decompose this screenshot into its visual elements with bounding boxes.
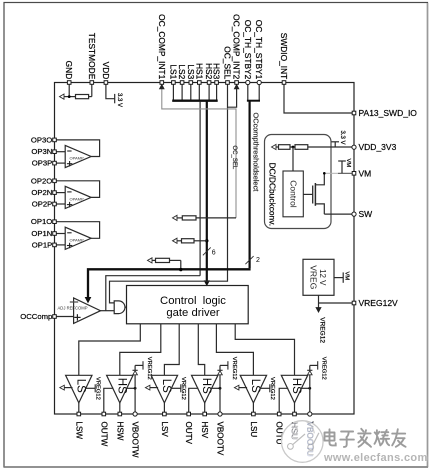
svg-text:LS: LS xyxy=(160,379,172,393)
svg-text:OC_SEL: OC_SEL xyxy=(231,146,237,170)
svg-text:LS1: LS1 xyxy=(168,64,178,79)
svg-text:VDD: VDD xyxy=(101,62,111,80)
svg-text:OPAMP: OPAMP xyxy=(70,197,84,202)
svg-text:OP2P: OP2P xyxy=(32,200,53,209)
svg-text:HSV: HSV xyxy=(200,422,209,439)
svg-text:HS: HS xyxy=(115,378,127,394)
svg-text:Control logic: Control logic xyxy=(160,295,226,307)
svg-text:GND: GND xyxy=(64,61,74,80)
svg-text:VREG12: VREG12 xyxy=(180,377,186,400)
svg-text:6: 6 xyxy=(212,250,216,257)
svg-text:OC_TH_STBY1: OC_TH_STBY1 xyxy=(254,20,264,80)
svg-text:LSV: LSV xyxy=(160,422,169,438)
svg-text:OUTV: OUTV xyxy=(184,422,193,445)
svg-text:OP2O: OP2O xyxy=(31,176,52,185)
svg-text:HSU: HSU xyxy=(290,422,300,440)
svg-text:OUTW: OUTW xyxy=(99,422,108,447)
svg-text:OCcompthresholdselect: OCcompthresholdselect xyxy=(251,113,260,192)
svg-text:HS3: HS3 xyxy=(212,63,222,80)
svg-text:VBOOTV: VBOOTV xyxy=(216,422,225,456)
svg-text:VREG12: VREG12 xyxy=(269,377,275,400)
svg-text:PA13_SWD_IO: PA13_SWD_IO xyxy=(359,108,418,118)
svg-text:TESTMODE: TESTMODE xyxy=(87,33,97,80)
svg-text:LS: LS xyxy=(74,379,86,393)
svg-text:LSW: LSW xyxy=(74,422,83,440)
svg-text:OP3O: OP3O xyxy=(31,135,52,144)
svg-text:VREG12: VREG12 xyxy=(231,357,237,380)
svg-text:VREG12: VREG12 xyxy=(318,317,325,343)
svg-text:OC_COMP_INT2: OC_COMP_INT2 xyxy=(232,14,242,79)
svg-text:OP2N: OP2N xyxy=(31,188,52,197)
svg-text:VBOOTW: VBOOTW xyxy=(131,422,140,458)
svg-text:HS: HS xyxy=(290,378,302,394)
svg-text:SWDIO_INT: SWDIO_INT xyxy=(279,33,289,80)
svg-text:OC_SEL: OC_SEL xyxy=(223,46,233,79)
svg-text:OP1N: OP1N xyxy=(31,229,52,238)
svg-text:OCComp: OCComp xyxy=(20,312,52,321)
svg-text:OPAMP: OPAMP xyxy=(70,237,84,242)
svg-text:LSU: LSU xyxy=(249,422,258,438)
svg-text:VREG12: VREG12 xyxy=(94,377,100,400)
svg-text:Control: Control xyxy=(289,180,299,208)
svg-text:VM: VM xyxy=(343,272,349,281)
svg-text:VM: VM xyxy=(345,159,351,168)
svg-text:HS1: HS1 xyxy=(194,63,204,80)
svg-text:VREG: VREG xyxy=(309,265,319,289)
svg-text:VM: VM xyxy=(359,168,372,178)
svg-text:gate driver: gate driver xyxy=(166,307,220,319)
svg-text:LS: LS xyxy=(249,379,261,393)
svg-text:3.3 V: 3.3 V xyxy=(339,131,345,145)
svg-text:DC/DCbuckconv.: DC/DCbuckconv. xyxy=(267,163,277,227)
svg-text:HS: HS xyxy=(200,378,212,394)
svg-text:OP3N: OP3N xyxy=(31,147,52,156)
svg-text:SW: SW xyxy=(359,209,373,219)
svg-text:LS2: LS2 xyxy=(177,64,187,79)
svg-text:VDD_3V3: VDD_3V3 xyxy=(359,142,397,152)
svg-text:OP1O: OP1O xyxy=(31,217,52,226)
svg-text:VREG12V: VREG12V xyxy=(359,298,399,308)
svg-text:OC_TH_STBY2: OC_TH_STBY2 xyxy=(243,20,253,80)
svg-text:ADJ REFCOMP: ADJ REFCOMP xyxy=(58,305,88,310)
svg-text:OPAMP: OPAMP xyxy=(70,156,84,161)
svg-text:VREG12: VREG12 xyxy=(321,357,327,380)
svg-text:HSW: HSW xyxy=(115,422,124,441)
svg-text:2: 2 xyxy=(256,257,260,264)
svg-text:OP3P: OP3P xyxy=(32,159,53,168)
svg-text:www.elecfans.com: www.elecfans.com xyxy=(323,452,428,464)
svg-text:VBOOTU: VBOOTU xyxy=(305,422,315,457)
svg-text:3.3 V: 3.3 V xyxy=(116,93,122,107)
svg-text:OP1P: OP1P xyxy=(32,240,53,249)
svg-text:OC_COMP_INT1: OC_COMP_INT1 xyxy=(157,14,167,79)
